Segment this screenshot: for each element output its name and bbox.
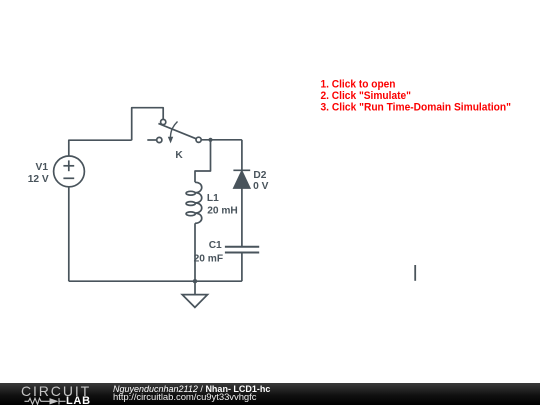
CircuitLab logo — [0, 383, 110, 405]
wire inductor bottom to ground node — [194, 223, 196, 281]
svg-text:20 mH: 20 mH — [207, 206, 238, 217]
svg-text:3. Click "Run Time-Domain Simu: 3. Click "Run Time-Domain Simulation" — [321, 101, 512, 113]
footer text — [113, 384, 270, 394]
switch common contact — [196, 137, 201, 142]
svg-text:D2: D2 — [253, 170, 266, 181]
capacitor C1 — [225, 247, 259, 253]
wire left rail V1 bottom — [68, 187, 70, 281]
wire capacitor bottom — [241, 253, 243, 281]
svg-text:12 V: 12 V — [28, 174, 49, 185]
switch pivot contact — [161, 119, 166, 124]
footer bar — [0, 383, 540, 405]
annotation red text — [321, 78, 512, 113]
cursor mark — [414, 265, 416, 281]
wire diode to capacitor — [241, 188, 243, 246]
wire bottom rail — [69, 280, 242, 282]
svg-text:V1: V1 — [36, 162, 49, 173]
svg-text:LAB: LAB — [66, 395, 91, 405]
node junction ground — [193, 279, 197, 283]
wire diode branch down — [241, 140, 243, 170]
svg-text:L1: L1 — [207, 193, 219, 204]
switch K — [147, 119, 201, 143]
svg-text:0 V: 0 V — [253, 181, 268, 192]
svg-text:20 mF: 20 mF — [194, 254, 223, 265]
svg-text:1. Click to open: 1. Click to open — [321, 78, 396, 90]
wire switch output to diode branch — [201, 139, 242, 141]
switch actuation arrow — [170, 122, 177, 140]
switch blade — [158, 124, 196, 139]
wire junction down to inductor top — [195, 140, 211, 183]
voltage source V1 — [54, 156, 85, 187]
switch open throw contact — [157, 137, 162, 142]
wire upper jog to switch — [132, 108, 164, 141]
node junction at switch output — [208, 138, 212, 142]
inductor L1 — [186, 182, 202, 223]
switch open throw stub — [147, 139, 156, 141]
svg-text:C1: C1 — [209, 240, 222, 251]
svg-text:K: K — [175, 150, 183, 161]
wire top-left from V1 to first bend — [69, 140, 132, 156]
diode D2 — [233, 170, 250, 188]
svg-text:2. Click "Simulate": 2. Click "Simulate" — [321, 90, 412, 102]
ground — [182, 281, 207, 307]
